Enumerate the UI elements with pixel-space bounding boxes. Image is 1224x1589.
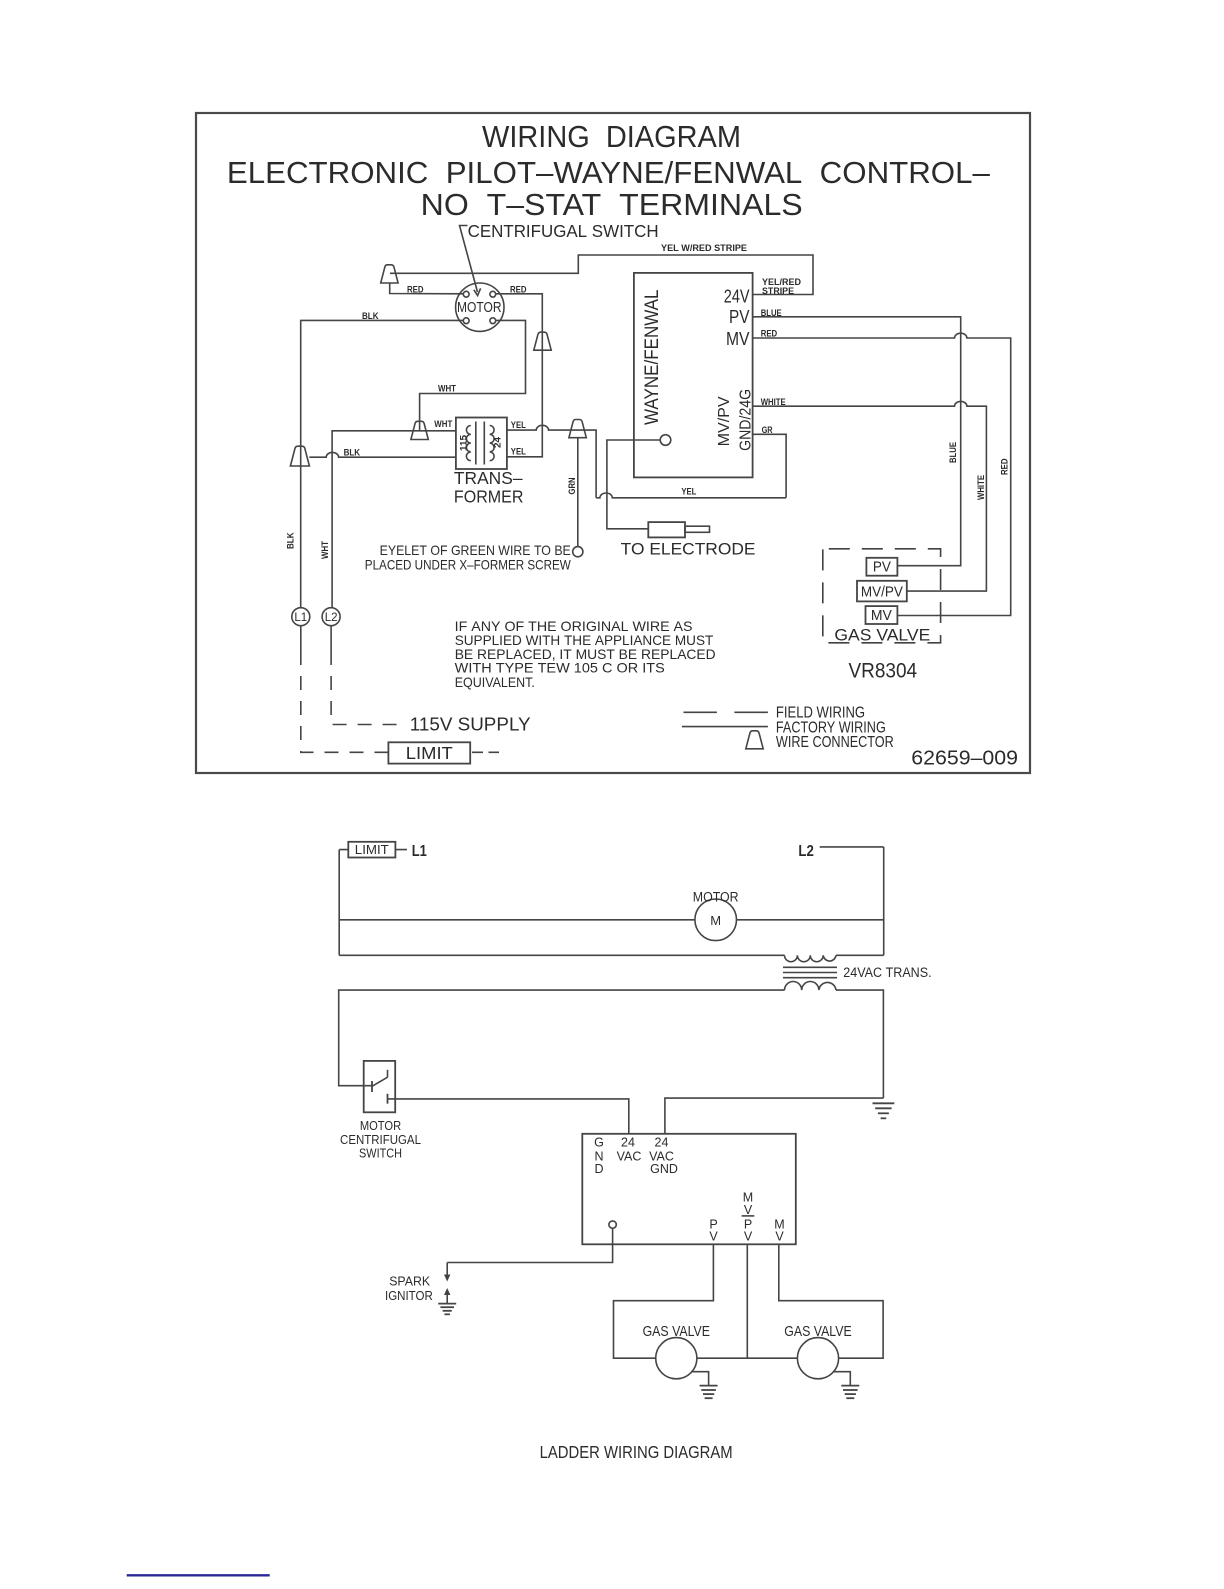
- motor centrifugal switch: [340, 1061, 421, 1161]
- svg-text:PV: PV: [873, 560, 891, 576]
- label SPARK IGNITOR: [385, 1274, 433, 1303]
- svg-text:WHT: WHT: [434, 419, 452, 429]
- gas valve VR8304 dashed outline: [823, 549, 941, 683]
- motor MOTOR: [456, 283, 504, 331]
- gas valve 1: [643, 1323, 710, 1379]
- wire GRN with eyelet: [573, 438, 583, 557]
- svg-text:62659–009: 62659–009: [911, 747, 1018, 769]
- wire WHITE (hop over BLUE): [754, 397, 987, 591]
- label BLUE rotated: [948, 442, 958, 463]
- legend wire connector: [746, 731, 894, 751]
- svg-text:YEL: YEL: [681, 486, 696, 496]
- wire PV BLUE: [754, 308, 961, 566]
- svg-text:MV/PV: MV/PV: [861, 584, 903, 600]
- terminal MV (ladder): [774, 1217, 784, 1243]
- svg-text:GRN: GRN: [567, 478, 577, 495]
- ground (right rail): [873, 1103, 895, 1118]
- wire secondary loop left: [339, 990, 785, 1086]
- svg-text:L2: L2: [798, 843, 813, 860]
- svg-text:BLUE: BLUE: [761, 308, 782, 318]
- svg-text:BLUE: BLUE: [948, 442, 958, 463]
- label RED rotated: [1000, 458, 1010, 475]
- svg-text:CENTRIFUGAL: CENTRIFUGAL: [340, 1133, 421, 1147]
- wire transformer rung: [339, 954, 884, 956]
- wire YEL W/RED STRIPE from connector to 24V terminal: [390, 243, 813, 296]
- limit switch LIMIT (ladder): [339, 842, 407, 858]
- wire MV/PV: [746, 1244, 748, 1358]
- svg-text:WIRING DIAGRAM: WIRING DIAGRAM: [482, 119, 741, 154]
- wire left rail (115V): [338, 850, 340, 956]
- transformer 24VAC TRANS. primary: [785, 955, 837, 961]
- svg-text:WHT: WHT: [320, 541, 330, 559]
- svg-text:24V: 24V: [724, 286, 750, 306]
- control box (ladder): [582, 1134, 796, 1245]
- wire PV to gas valve 1: [614, 1244, 714, 1358]
- gas valve 2: [784, 1323, 851, 1379]
- wire 24 VAC GND to grounded rail: [665, 1098, 884, 1134]
- svg-text:YEL: YEL: [511, 447, 526, 457]
- terminal MV/PV: [857, 581, 907, 602]
- svg-text:SWITCH: SWITCH: [359, 1147, 402, 1161]
- svg-text:MV/PV: MV/PV: [716, 396, 733, 446]
- transformer TRANS-FORMER: [454, 418, 524, 507]
- svg-text:WIRE CONNECTOR: WIRE CONNECTOR: [776, 734, 894, 751]
- note wire replacement: [455, 618, 716, 690]
- supply L2 dashed to 115V SUPPLY: [331, 626, 530, 735]
- svg-text:YEL: YEL: [511, 420, 526, 430]
- node L1: [292, 608, 310, 626]
- svg-text:VR8304: VR8304: [849, 660, 918, 683]
- wire MV to gas valve 2: [779, 1244, 883, 1358]
- wire MV RED (hop over BLUE): [754, 329, 1011, 616]
- wire connector on yel w/red stripe wire: [381, 265, 398, 283]
- svg-text:TRANS–: TRANS–: [454, 468, 523, 488]
- ground (spark ignitor): [438, 1304, 456, 1315]
- svg-text:RED: RED: [761, 329, 778, 339]
- wire motor rung: [339, 919, 884, 921]
- wire RED (motor right, drop to transformer): [496, 284, 542, 457]
- svg-text:CENTRIFUGAL SWITCH: CENTRIFUGAL SWITCH: [468, 221, 659, 241]
- ground (gas valve 1): [692, 1372, 718, 1399]
- motor M (ladder): [693, 890, 739, 941]
- spark electrode: [621, 522, 756, 558]
- svg-text:RED: RED: [1000, 458, 1010, 475]
- svg-text:WHT: WHT: [438, 384, 456, 394]
- svg-text:MV: MV: [726, 329, 750, 349]
- svg-text:V: V: [744, 1230, 753, 1244]
- legend factory wiring: [682, 720, 886, 737]
- svg-text:V: V: [775, 1230, 784, 1244]
- svg-text:GAS VALVE: GAS VALVE: [834, 627, 930, 645]
- label BLK rotated: [286, 532, 296, 549]
- label WHITE rotated: [976, 475, 986, 500]
- wire WHT (motor right drop to junction): [420, 320, 526, 430]
- transformer secondary: [785, 981, 837, 990]
- svg-text:MV: MV: [871, 608, 892, 624]
- svg-text:BLK: BLK: [362, 311, 379, 321]
- svg-text:V: V: [709, 1230, 718, 1244]
- wire connector on RED drop: [534, 332, 551, 350]
- wire right rail (115V): [883, 847, 885, 955]
- svg-text:GAS VALVE: GAS VALVE: [784, 1323, 851, 1340]
- svg-text:GND/24G: GND/24G: [737, 389, 754, 451]
- wire YEL upper (transformer to control, hop over RED): [507, 420, 596, 498]
- wire GR: [754, 425, 787, 498]
- svg-text:RED: RED: [510, 284, 527, 294]
- legend field wiring: [684, 705, 866, 722]
- limit switch LIMIT: [388, 742, 499, 763]
- svg-text:L1: L1: [412, 843, 427, 860]
- wire to electrode: [607, 440, 660, 529]
- svg-text:MOTOR: MOTOR: [693, 890, 739, 905]
- terminal MV/PV (ladder): [743, 1190, 753, 1243]
- node L2: [322, 608, 340, 626]
- svg-text:PV: PV: [729, 307, 750, 327]
- node L2 (ladder): [798, 843, 883, 860]
- svg-text:V: V: [744, 1203, 753, 1217]
- wire BLK to transformer (hop over WHT riser): [309, 448, 456, 458]
- wire connector BLK junction: [290, 446, 309, 466]
- svg-text:WAYNE/FENWAL: WAYNE/FENWAL: [641, 289, 663, 425]
- control WAYNE/FENWAL box: [634, 273, 754, 478]
- svg-text:115: 115: [459, 435, 469, 451]
- link underline mark: [127, 1574, 270, 1576]
- svg-text:24: 24: [621, 1136, 635, 1150]
- svg-text:VAC: VAC: [617, 1149, 642, 1163]
- transformer core: [783, 967, 837, 977]
- svg-text:WHITE: WHITE: [761, 397, 786, 407]
- supply L1 dashed to LIMIT: [300, 626, 302, 651]
- svg-text:MOTOR: MOTOR: [360, 1119, 401, 1133]
- wire connector YEL/GRN junction: [569, 420, 586, 438]
- svg-text:L2: L2: [325, 612, 338, 624]
- wire connector WHT junction: [411, 421, 428, 439]
- spark gap arrows: [444, 1263, 450, 1304]
- svg-text:LIMIT: LIMIT: [355, 843, 389, 857]
- wire BLK (motor left, down left side): [301, 311, 464, 608]
- wire WHT (supply riser to transformer): [332, 419, 456, 608]
- svg-text:L1: L1: [294, 612, 307, 624]
- svg-text:G: G: [594, 1136, 604, 1150]
- svg-text:FORMER: FORMER: [454, 487, 524, 507]
- wire switch to 24 VAC terminal: [388, 1099, 629, 1134]
- svg-text:MOTOR: MOTOR: [457, 300, 502, 316]
- svg-text:BLK: BLK: [286, 532, 296, 549]
- svg-text:IGNITOR: IGNITOR: [385, 1289, 433, 1303]
- note eyelet instruction: [365, 542, 572, 572]
- svg-text:24VAC TRANS.: 24VAC TRANS.: [843, 965, 931, 980]
- svg-text:PLACED UNDER X–FORMER SCREW: PLACED UNDER X–FORMER SCREW: [365, 556, 572, 572]
- svg-text:NO T–STAT TERMINALS: NO T–STAT TERMINALS: [421, 187, 803, 222]
- svg-text:GAS VALVE: GAS VALVE: [643, 1323, 710, 1340]
- terminal PV (ladder): [709, 1217, 718, 1243]
- label GRN rotated: [567, 478, 577, 495]
- svg-text:D: D: [594, 1162, 603, 1176]
- label WHT rotated: [320, 541, 330, 559]
- svg-text:GND: GND: [650, 1162, 678, 1176]
- svg-text:WHITE: WHITE: [976, 475, 986, 500]
- svg-text:ELECTRONIC PILOT–WAYNE/FENWAL: ELECTRONIC PILOT–WAYNE/FENWAL CONTROL–: [227, 155, 991, 190]
- svg-text:STRIPE: STRIPE: [762, 286, 794, 296]
- svg-text:LADDER WIRING DIAGRAM: LADDER WIRING DIAGRAM: [540, 1442, 733, 1462]
- svg-text:YEL W/RED STRIPE: YEL W/RED STRIPE: [661, 243, 747, 253]
- svg-text:M: M: [710, 913, 721, 928]
- wire spark ignitor: [447, 1228, 612, 1262]
- wire YEL lower run (hop over electrode wire): [596, 486, 786, 498]
- svg-text:EQUIVALENT.: EQUIVALENT.: [455, 674, 535, 690]
- svg-text:115V SUPPLY: 115V SUPPLY: [410, 714, 531, 735]
- svg-text:24: 24: [493, 437, 503, 448]
- svg-text:GR: GR: [762, 425, 773, 435]
- svg-text:RED: RED: [407, 284, 424, 294]
- svg-text:LIMIT: LIMIT: [406, 743, 453, 763]
- terminal MV: [866, 606, 898, 624]
- svg-text:TO ELECTRODE: TO ELECTRODE: [621, 539, 756, 558]
- svg-text:BLK: BLK: [344, 448, 361, 458]
- ground (gas valve 2): [834, 1372, 860, 1399]
- svg-text:24: 24: [655, 1136, 669, 1150]
- terminal PV: [866, 558, 897, 576]
- wire between gas valves: [697, 1357, 798, 1359]
- wire secondary loop right: [836, 990, 883, 1098]
- wire RED (motor left): [390, 284, 464, 295]
- svg-text:SPARK: SPARK: [389, 1274, 431, 1288]
- centrifugal switch label and leader: [460, 221, 659, 296]
